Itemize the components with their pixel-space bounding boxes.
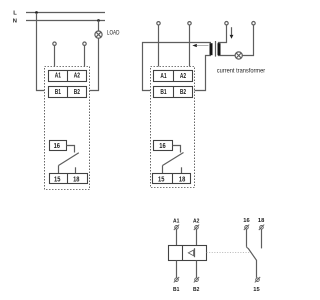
wire lamp E2 to terminal [242,25,253,56]
relay unit 2 dashed outline [151,67,195,188]
terminal B2 with slash [194,277,199,282]
transformer T1 core [215,41,217,57]
svg-text:L: L [13,11,17,17]
wire blade to 15 (unit 2) [162,166,164,174]
terminal 18 with slash [259,225,264,230]
node junction on N [97,19,100,22]
wire A2 to coil box [196,229,198,245]
terminal for A2 (unit 1) [83,42,86,45]
svg-text:B2: B2 [180,87,186,96]
terminal 16 with slash [244,225,249,230]
svg-text:18: 18 [258,218,264,224]
wire from N to lamp E1 [98,21,100,32]
lamp E2 [235,52,242,59]
contact terminal block 15 18 (unit 1) [50,174,88,184]
terminal block B1 B2 (unit 1) [49,87,87,98]
wire CT primary [219,25,236,56]
terminal for A1 (unit 1) [53,42,56,45]
contact terminal block 15 18 (unit 2) [153,174,191,184]
svg-text:A1: A1 [55,71,61,80]
svg-text:A2: A2 [180,71,186,80]
svg-text:A2: A2 [193,218,199,224]
contact blade 15-16 (unit 2) [163,153,184,166]
terminal A2 with slash [194,225,199,230]
svg-text:LOAD: LOAD [107,29,120,36]
svg-text:B1: B1 [173,287,179,293]
wire stub 18 (unit 2) [181,167,183,173]
svg-text:current transformer: current transformer [217,67,265,74]
terminal B1 with slash [174,277,179,282]
node junction on L [35,11,38,14]
svg-text:N: N [13,19,17,25]
svg-text:B1: B1 [160,87,166,96]
current direction arrow down [230,27,234,39]
wire from 16 box to contact [67,146,75,153]
svg-text:16: 16 [159,141,165,150]
wire L line [26,12,105,14]
svg-text:16: 16 [54,141,60,150]
svg-text:18: 18 [179,174,185,183]
svg-text:18: 18 [73,174,79,183]
svg-text:15: 15 [253,287,259,293]
contact blade 15-16 (unit 1) [59,153,79,166]
wire N line [26,20,105,22]
svg-text:A1: A1 [173,218,179,224]
svg-text:B2: B2 [74,87,80,96]
wire from lamp E1 to B2 [90,38,99,90]
wire A1 to coil box [176,229,178,245]
wire CT secondary bottom to B2 [195,56,212,91]
contact terminal 16 box (unit 1) [50,141,67,151]
terminal A1 with slash [174,225,179,230]
transformer T1 primary winding bar [218,43,221,55]
wire from 16 box to contact (unit 2) [173,146,181,153]
terminal 15 with slash [255,277,260,282]
arrowhead current direction into unit 2 [192,44,197,47]
terminal CT primary in [225,22,228,25]
terminal for A1 (unit 2) [157,22,160,25]
wire CT secondary top to B1 [143,43,212,91]
transformer T1 secondary winding bar [210,43,213,55]
wire 16 down [246,229,248,246]
svg-text:B1: B1 [55,87,61,96]
wire terminal to A2 [84,45,86,66]
wire blade to 15 (unit 1) [58,166,60,174]
terminal block A1 A2 (unit 1) [49,71,87,82]
terminal CT lamp side [252,22,255,25]
contact terminal 16 box (unit 2) [154,141,173,151]
relay internal box U1 [169,246,207,261]
wire stub 18 (unit 1) [75,167,77,173]
wire from L to B1 [37,13,45,91]
svg-text:16: 16 [243,218,249,224]
wire terminal to A1 (unit 2) [158,25,160,67]
wire 18 down [261,229,263,248]
contact seat hook at 16 [247,247,249,249]
terminal block A1 A2 (unit 2) [154,71,193,82]
wire B2 to coil box [196,261,198,278]
terminal block B1 B2 (unit 2) [154,87,193,98]
svg-text:A2: A2 [74,71,80,80]
wire terminal to A1 [54,45,56,66]
wire B1 to coil box [176,261,178,278]
terminal for A2 (unit 2) [188,22,191,25]
svg-text:B2: B2 [193,287,199,293]
svg-text:A1: A1 [160,71,166,80]
svg-text:15: 15 [54,174,60,183]
wire terminal to A2 (unit 2) [189,25,191,67]
comparator symbol in U1 [188,248,194,257]
lamp E1 LOAD [95,31,102,38]
svg-text:15: 15 [158,174,164,183]
contact blade 15-16 (internal diagram) [248,248,256,277]
actuator dashed link from U1 [207,252,251,254]
relay unit 1 dashed outline [45,67,90,190]
